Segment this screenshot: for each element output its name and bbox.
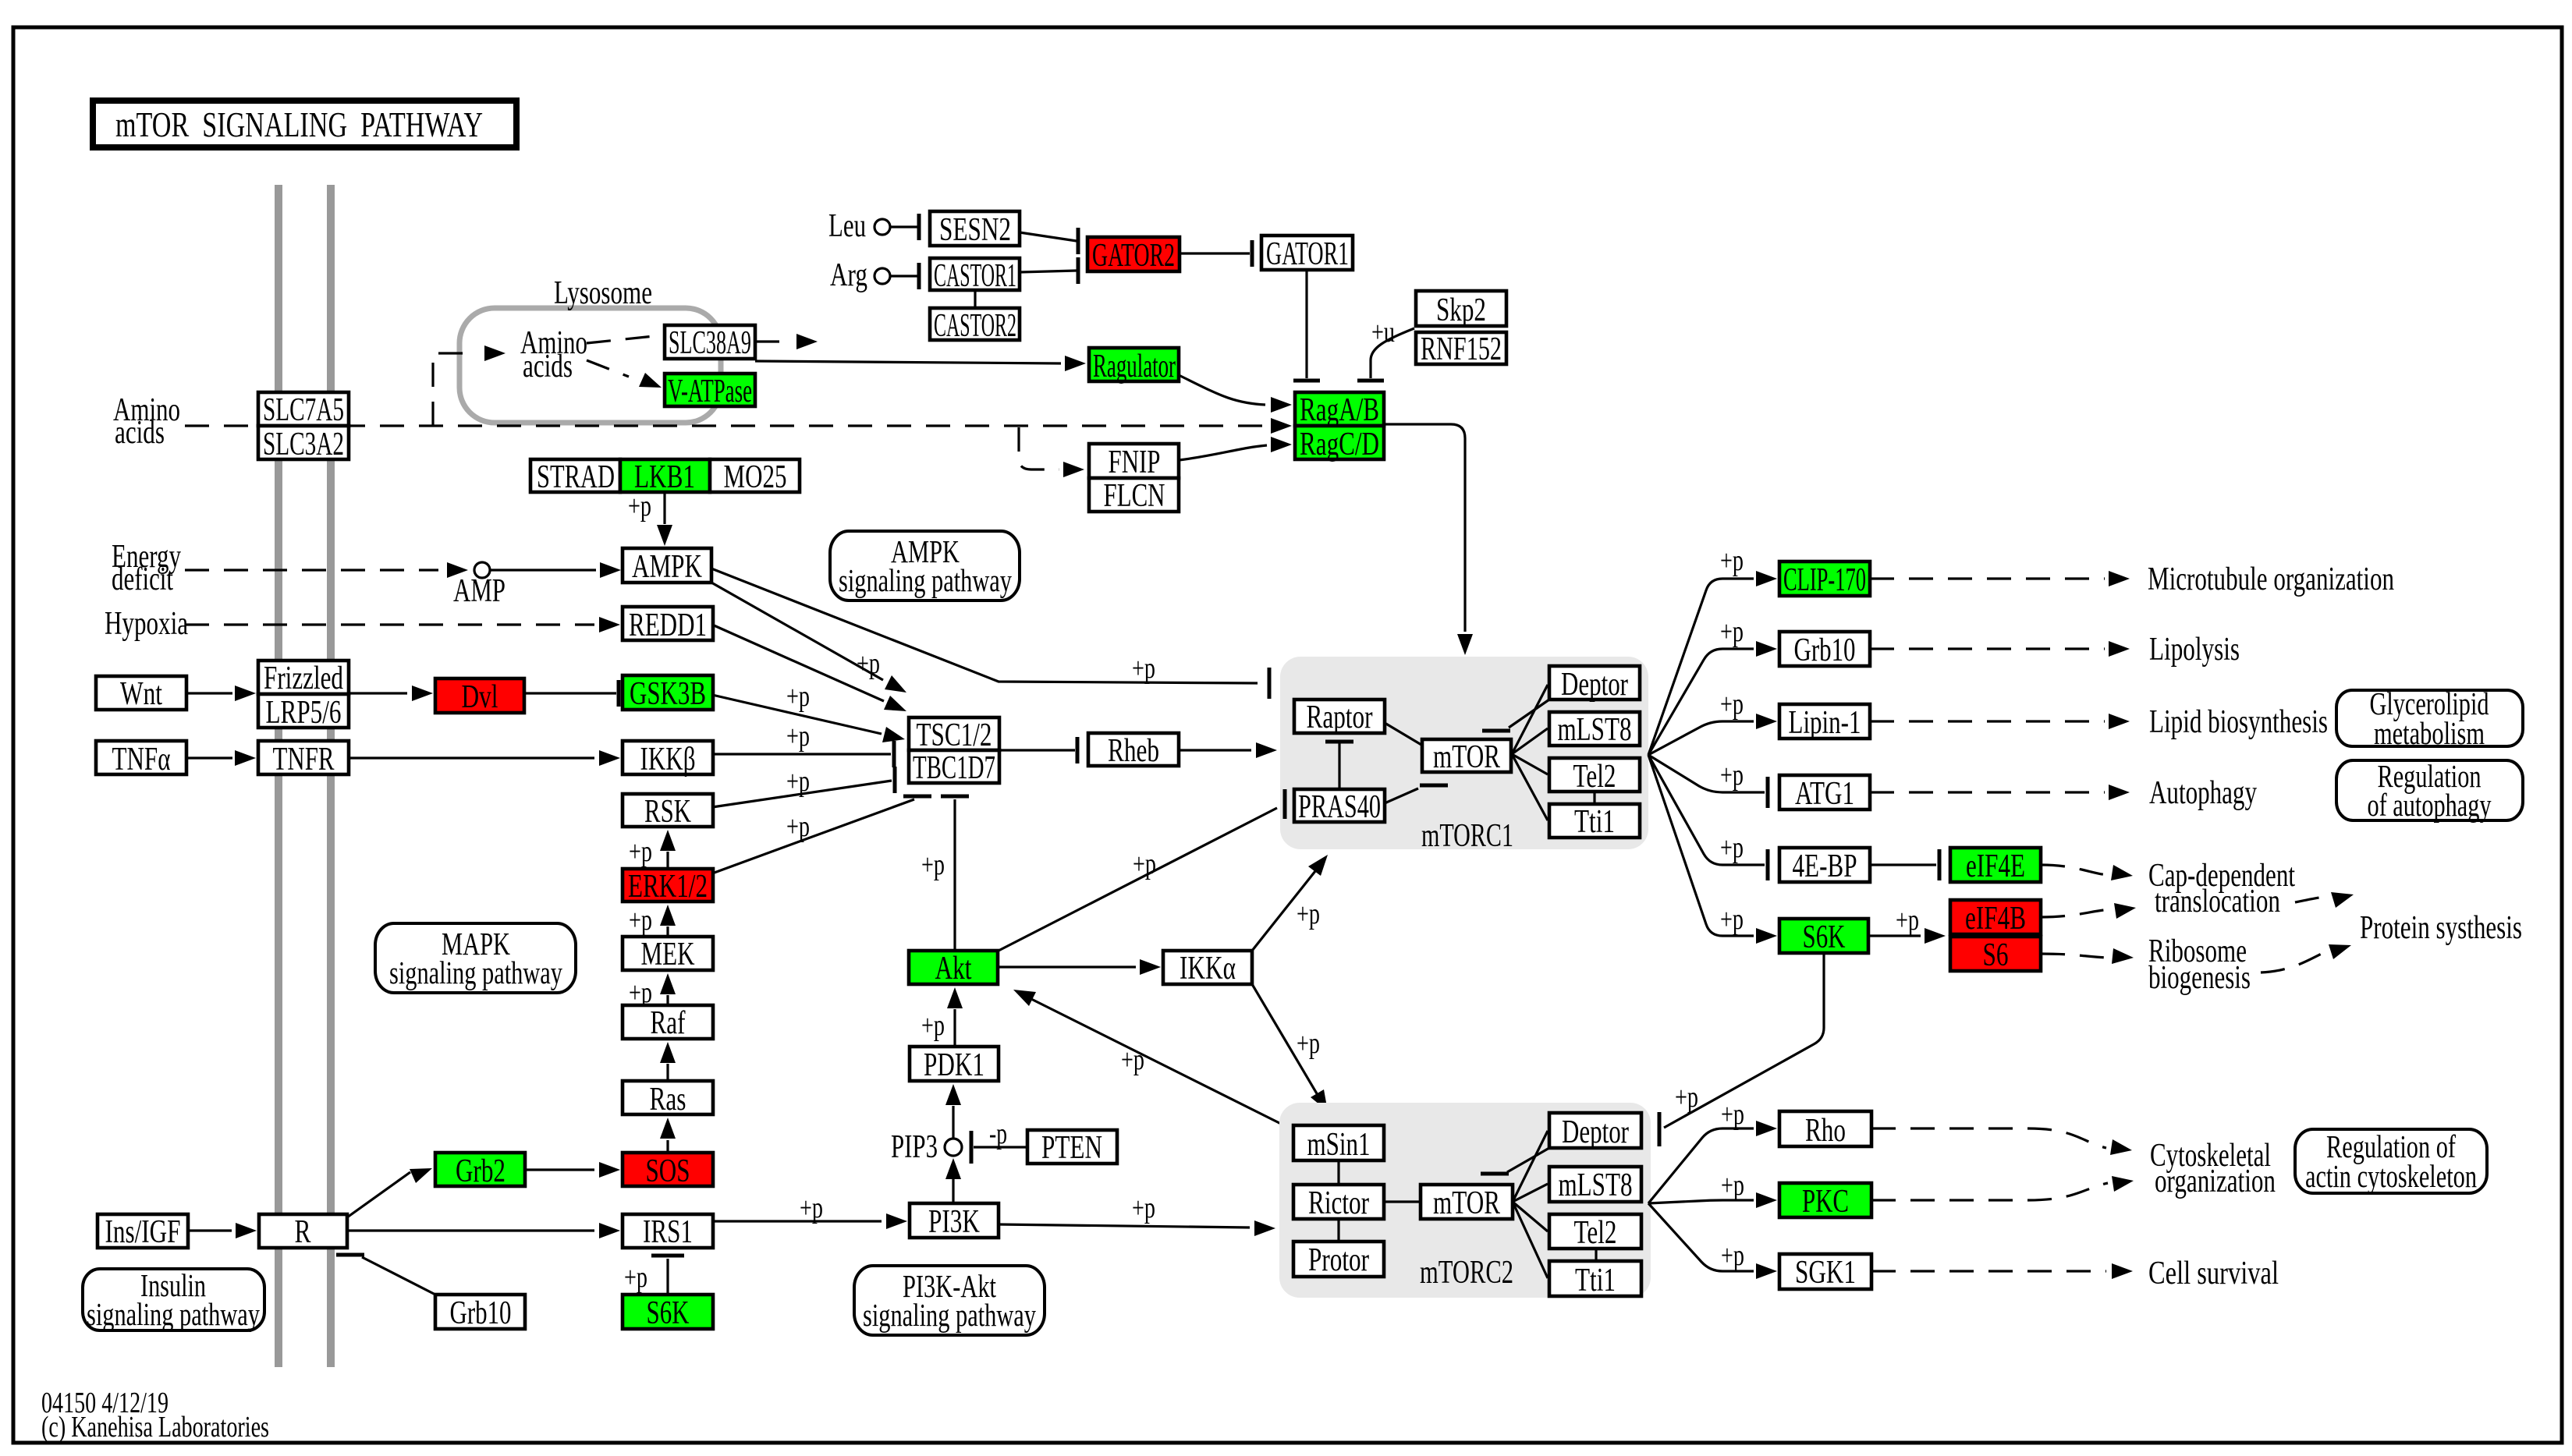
wire S6K to IRS1 inhibition bbox=[666, 1259, 669, 1295]
wire Raf to MEK bbox=[666, 995, 669, 1005]
arrowhead PI3K-PIP3 bbox=[945, 1158, 961, 1179]
svg-text:TSC1/2: TSC1/2 bbox=[917, 717, 992, 753]
svg-text:S6: S6 bbox=[1983, 937, 2009, 973]
gene Grb10 bottom bbox=[435, 1295, 525, 1331]
inhibit cap Grb10-R bbox=[336, 1253, 364, 1257]
dashed wire Amino acids to RagA/B-RagC/D bbox=[185, 424, 1270, 427]
svg-text:mLST8: mLST8 bbox=[1558, 712, 1632, 748]
arrowhead PIP3-PDK1 bbox=[945, 1084, 961, 1105]
wire SOS to Ras bbox=[666, 1140, 669, 1153]
svg-text:eIF4B: eIF4B bbox=[1965, 901, 2026, 937]
wire AMP to AMPK bbox=[490, 569, 596, 571]
arrowhead into V-ATPase bbox=[639, 373, 662, 388]
wire S6K feedback bbox=[1664, 953, 1824, 1128]
wire mTORC1 to Grb10 bbox=[1648, 649, 1754, 755]
svg-text:CASTOR1: CASTOR1 bbox=[934, 258, 1016, 294]
gene Ras bbox=[623, 1081, 713, 1118]
wire AMPK to mTORC1 inhibition bbox=[711, 569, 1258, 683]
svg-text:R: R bbox=[295, 1214, 311, 1250]
svg-text:Protor: Protor bbox=[1308, 1242, 1369, 1278]
svg-text:Skp2: Skp2 bbox=[1436, 292, 1486, 328]
gene Rictor bbox=[1293, 1185, 1384, 1221]
arrowhead AMPK-TSC bbox=[885, 675, 906, 693]
arrowhead PDK1-Akt bbox=[947, 987, 963, 1008]
svg-text:mTOR: mTOR bbox=[1433, 739, 1500, 775]
svg-text:mTORC2: mTORC2 bbox=[1420, 1255, 1513, 1291]
svg-text:LKB1: LKB1 bbox=[634, 459, 695, 495]
mTORC2 complex background bbox=[1279, 1103, 1651, 1298]
inhibit bar AMPK-mTORC1 bbox=[1268, 668, 1272, 699]
inhibit cap Raptor-PRAS40 bbox=[1325, 740, 1353, 744]
inhibit bar S6K-mTORC2 bbox=[1658, 1112, 1662, 1146]
svg-text:Grb10: Grb10 bbox=[1794, 632, 1856, 668]
gene eIF4E bbox=[1950, 848, 2041, 884]
dashed wire PKC to Cytoskeletal organization bbox=[1871, 1183, 2108, 1200]
svg-text:TNFR: TNFR bbox=[273, 742, 335, 778]
gene MEK bbox=[623, 937, 713, 972]
arrowhead mTORC2-PKC bbox=[1756, 1192, 1777, 1208]
inhibit bar RSK-TSC bbox=[893, 767, 897, 793]
lysosome compartment bbox=[459, 308, 721, 423]
dashed wire translocation to Protein synthesis bbox=[2295, 896, 2333, 902]
arrowhead into amino acids bbox=[484, 345, 506, 361]
gene GSK3B bbox=[623, 675, 713, 712]
svg-text:V-ATPase: V-ATPase bbox=[668, 374, 752, 409]
transporter SLC3A2 bbox=[258, 426, 349, 462]
gene PRAS40 bbox=[1294, 789, 1385, 825]
svg-text:PTEN: PTEN bbox=[1041, 1130, 1102, 1166]
svg-text:REDD1: REDD1 bbox=[629, 608, 707, 643]
wire Akt to IKKa bbox=[999, 965, 1136, 968]
gene Protor bbox=[1293, 1242, 1384, 1278]
svg-text:Deptor: Deptor bbox=[1562, 1114, 1629, 1150]
gene mLST8 (mTORC2) bbox=[1549, 1167, 1641, 1203]
gene ERK1/2 bbox=[623, 869, 713, 905]
inhibit cap ERK-TSC bbox=[903, 795, 931, 799]
svg-text:(c) Kanehisa Laboratories: (c) Kanehisa Laboratories bbox=[41, 1411, 269, 1444]
svg-text:+p: +p bbox=[786, 680, 810, 713]
gene S6K bottom bbox=[623, 1295, 713, 1331]
wire GSK3B to TSC bbox=[712, 695, 882, 734]
inhibit cap Deptor2-mTOR2 bbox=[1481, 1172, 1509, 1176]
arrowhead PI3K-mTORC2 bbox=[1254, 1220, 1275, 1236]
wire mTORC1 to Lipin-1 bbox=[1648, 721, 1754, 755]
arrowhead mTORC1-CLIP-170 bbox=[1756, 571, 1777, 586]
svg-text:Ins/IGF: Ins/IGF bbox=[105, 1214, 181, 1250]
wire Grb10 to R inhibition bbox=[362, 1257, 437, 1295]
svg-text:SGK1: SGK1 bbox=[1795, 1255, 1856, 1291]
dashed wire energy deficit bbox=[185, 569, 438, 571]
gene REDD1 bbox=[623, 607, 713, 643]
svg-text:Lipin-1: Lipin-1 bbox=[1789, 705, 1861, 741]
inhibit bar SESN2-GATOR2 bbox=[1077, 228, 1080, 254]
complex GATOR1 bbox=[1261, 236, 1353, 272]
svg-text:ERK1/2: ERK1/2 bbox=[628, 869, 708, 905]
title box mTOR SIGNALING PATHWAY bbox=[93, 101, 516, 147]
wire Deptor2 to mTOR2 bbox=[1507, 1148, 1549, 1172]
svg-text:organization: organization bbox=[2155, 1164, 2276, 1199]
svg-text:GATOR2: GATOR2 bbox=[1092, 238, 1175, 274]
wire SESN2 to GATOR2 bar bbox=[1020, 232, 1077, 241]
arrowhead mTORC1-Grb10 bbox=[1756, 641, 1777, 657]
inhibit bar IKKb-TSC bbox=[892, 741, 896, 767]
gene Deptor (mTORC2) bbox=[1549, 1113, 1641, 1150]
svg-text:CLIP-170: CLIP-170 bbox=[1783, 562, 1866, 598]
wire S6K to eIF4B/S6 bbox=[1868, 934, 1921, 937]
svg-text:+p: +p bbox=[1720, 759, 1744, 792]
svg-text:+p: +p bbox=[1720, 903, 1744, 936]
gene Rho bbox=[1779, 1111, 1871, 1149]
svg-text:of autophagy: of autophagy bbox=[2368, 787, 2492, 823]
gene AMPK bbox=[623, 548, 711, 585]
dashed wire ATG1 to Autophagy bbox=[1870, 791, 2105, 793]
svg-text:MO25: MO25 bbox=[724, 459, 787, 495]
svg-text:SLC38A9: SLC38A9 bbox=[669, 325, 751, 361]
svg-text:+p: +p bbox=[921, 1009, 945, 1042]
svg-text:Rheb: Rheb bbox=[1108, 733, 1159, 769]
gene eIF4B bbox=[1950, 900, 2041, 937]
dashed wire Lipin-1 to Lipid biosynthesis bbox=[1870, 720, 2105, 722]
gene ATG1 bbox=[1779, 775, 1870, 812]
arrowhead eIF4E-Cap bbox=[2111, 865, 2133, 880]
wire PDK1 to Akt bbox=[953, 1009, 956, 1047]
arrowhead before AMP bbox=[447, 562, 468, 578]
svg-text:+p: +p bbox=[921, 848, 945, 881]
gene S6 bbox=[1950, 937, 2041, 973]
svg-text:SESN2: SESN2 bbox=[939, 212, 1011, 248]
gene 4E-BP bbox=[1779, 848, 1870, 884]
svg-text:Tel2: Tel2 bbox=[1573, 759, 1616, 795]
arrowhead IRS1-PI3K bbox=[886, 1213, 907, 1229]
svg-text:acids: acids bbox=[523, 349, 573, 384]
svg-text:MEK: MEK bbox=[641, 937, 695, 972]
svg-text:Hypoxia: Hypoxia bbox=[105, 606, 188, 642]
svg-text:4E-BP: 4E-BP bbox=[1793, 848, 1857, 884]
dashed wire CLIP-170 to Microtubule organization bbox=[1870, 577, 2105, 579]
gene RagA/B bbox=[1295, 392, 1384, 428]
gene IKKb bbox=[623, 741, 713, 778]
dashed wire branch to FNIP bbox=[1019, 427, 1059, 469]
gene RNF152 bbox=[1416, 331, 1506, 367]
gene Raf bbox=[623, 1005, 713, 1041]
svg-text:acids: acids bbox=[115, 415, 165, 451]
arrowhead SGK1-Cell survival bbox=[2112, 1263, 2133, 1279]
svg-text:SOS: SOS bbox=[646, 1153, 690, 1189]
gene Wnt bbox=[96, 676, 186, 712]
wire CASTOR1 to GATOR2 bar bbox=[1020, 271, 1077, 272]
svg-text:S6K: S6K bbox=[647, 1295, 690, 1331]
svg-text:Deptor: Deptor bbox=[1561, 667, 1628, 703]
svg-text:+p: +p bbox=[786, 810, 810, 843]
wire ERK to TSC bbox=[712, 799, 914, 873]
arrowhead mTORC2-Akt bbox=[1013, 990, 1036, 1006]
arrowhead TNFR-IKKb bbox=[599, 750, 620, 766]
gene PTEN bbox=[1027, 1130, 1117, 1166]
mTORC1 complex background bbox=[1280, 657, 1648, 849]
svg-text:GSK3B: GSK3B bbox=[630, 676, 706, 712]
wire mTORC2 to Rho bbox=[1648, 1128, 1754, 1203]
svg-text:+p: +p bbox=[786, 765, 810, 798]
arrowhead Akt-IKKa bbox=[1140, 959, 1161, 975]
svg-text:biogenesis: biogenesis bbox=[2148, 960, 2251, 996]
gene mTOR (mTORC2) bbox=[1421, 1185, 1513, 1221]
complex TSC1/2 bbox=[909, 717, 999, 753]
gene Lipin-1 bbox=[1779, 704, 1870, 741]
svg-text:GATOR1: GATOR1 bbox=[1266, 236, 1349, 272]
inhibit cap GATOR1-RagA/B bbox=[1293, 379, 1320, 383]
svg-text:+p: +p bbox=[624, 1261, 647, 1294]
node PIP3 bbox=[945, 1139, 962, 1156]
wire mTORC2 to Akt bbox=[1023, 995, 1286, 1126]
wire PRAS40 to mTOR bbox=[1385, 788, 1418, 803]
gene IKKa bbox=[1163, 951, 1252, 987]
wire Wnt to Frizzled bbox=[186, 692, 232, 694]
gene Tti1 (mTORC2) bbox=[1549, 1261, 1641, 1298]
gene LKB1 bbox=[620, 459, 710, 495]
svg-text:Autophagy: Autophagy bbox=[2149, 775, 2257, 811]
svg-text:metabolism: metabolism bbox=[2374, 715, 2485, 751]
svg-text:mSin1: mSin1 bbox=[1307, 1127, 1371, 1163]
svg-text:Raptor: Raptor bbox=[1307, 700, 1373, 735]
wire IKKa to mTORC2 bbox=[1252, 984, 1318, 1095]
receptor LRP5/6 bbox=[258, 694, 349, 731]
arrowhead Ragulator-RagA/B bbox=[1271, 397, 1292, 413]
wire PTEN to PIP3 bbox=[974, 1146, 1027, 1148]
svg-text:signaling pathway: signaling pathway bbox=[839, 562, 1012, 598]
svg-text:+p: +p bbox=[1721, 1098, 1744, 1131]
arrowhead into REDD1 bbox=[599, 617, 620, 632]
wire Ragulator to RagA/B bbox=[1179, 375, 1265, 405]
inhibit bar CASTOR1-GATOR2 bbox=[1077, 257, 1080, 284]
receptor R bbox=[259, 1214, 347, 1250]
arrowhead REDD1-TSC bbox=[884, 696, 906, 711]
wire mTOR fan to subunits bbox=[1512, 685, 1548, 820]
pathway note MAPK signaling pathway bbox=[375, 923, 576, 993]
wire IKKb to TSC bbox=[712, 753, 891, 755]
arrowhead Rheb-mTORC1 bbox=[1256, 742, 1277, 758]
pathway note Glycerolipid metabolism bbox=[2336, 690, 2523, 746]
wire ERK to RSK bbox=[666, 852, 669, 869]
pathway note Insulin signaling pathway bbox=[83, 1269, 264, 1330]
complex Ragulator bbox=[1089, 348, 1179, 384]
svg-text:+p: +p bbox=[1675, 1081, 1698, 1114]
svg-text:Arg: Arg bbox=[830, 257, 867, 293]
inhibit bar Arg-CASTOR1 bbox=[917, 263, 921, 289]
wire GATOR1 down bbox=[1305, 270, 1307, 378]
wire 4E-BP to eIF4E bbox=[1870, 863, 1936, 866]
wire mSin1-Rictor complex bbox=[1337, 1160, 1339, 1185]
arrowhead into Rag boxes bbox=[1271, 418, 1292, 434]
gene Tel2 (mTORC1) bbox=[1549, 758, 1640, 795]
svg-text:RagA/B: RagA/B bbox=[1300, 392, 1379, 428]
svg-text:Dvl: Dvl bbox=[462, 679, 498, 715]
svg-text:Wnt: Wnt bbox=[120, 676, 162, 712]
arrowhead S6K-eIF4B bbox=[1925, 928, 1946, 944]
wire mTOR2 fan to subunits bbox=[1513, 1131, 1548, 1278]
svg-text:PKC: PKC bbox=[1802, 1184, 1849, 1220]
svg-text:IKKβ: IKKβ bbox=[640, 742, 696, 778]
svg-text:+p: +p bbox=[1720, 615, 1744, 648]
pathway note Regulation of actin cytoskeleton bbox=[2295, 1129, 2487, 1193]
gene mTOR (mTORC1) bbox=[1422, 739, 1511, 775]
inhibit bar mTORC1-4E-BP bbox=[1766, 849, 1770, 880]
svg-text:CASTOR2: CASTOR2 bbox=[934, 308, 1016, 344]
inhibit bar Dvl-GSK3B bbox=[617, 680, 621, 707]
dashed wire biogenesis to Protein synthesis bbox=[2261, 950, 2329, 972]
wire Rheb to mTORC1 bbox=[1179, 749, 1251, 751]
wire PIP3 to PDK1 bbox=[952, 1106, 954, 1138]
arrowhead Frizzled-Dvl bbox=[412, 685, 433, 701]
inhibit cap S6K-IRS1 bbox=[651, 1254, 684, 1258]
wire GATOR2 to GATOR1 bbox=[1180, 252, 1250, 254]
wire Ras to Raf bbox=[666, 1064, 669, 1081]
arrowhead LKB1-AMPK bbox=[657, 525, 672, 546]
arrowhead GSK3B-TSC bbox=[882, 727, 905, 742]
arrowhead Lipin-1 to Lipid biosynthesis bbox=[2109, 714, 2130, 729]
inhibit bar GATOR2-GATOR1 bbox=[1251, 240, 1254, 267]
svg-text:mLST8: mLST8 bbox=[1559, 1167, 1633, 1203]
arrowhead TNFa-TNFR bbox=[235, 750, 256, 766]
wire Deptor to mTOR bbox=[1509, 700, 1549, 728]
svg-text:PDK1: PDK1 bbox=[924, 1047, 984, 1083]
arrowhead R-Grb2 bbox=[410, 1168, 432, 1183]
arrowhead Grb2-SOS bbox=[599, 1162, 620, 1178]
wire PI3K to PIP3 bbox=[952, 1179, 954, 1203]
arrowhead SOS-Ras bbox=[660, 1118, 676, 1139]
pathway note PI3K-Akt signaling pathway bbox=[854, 1266, 1045, 1335]
gene CASTOR1 bbox=[930, 258, 1020, 294]
node Arg bbox=[874, 268, 890, 284]
svg-text:+p: +p bbox=[1721, 1169, 1744, 1202]
svg-text:+p: +p bbox=[1721, 1239, 1744, 1272]
wire Rictor-Protor complex bbox=[1337, 1219, 1339, 1242]
svg-text:Tel2: Tel2 bbox=[1574, 1215, 1617, 1251]
receptor Frizzled bbox=[258, 661, 349, 696]
svg-text:signaling pathway: signaling pathway bbox=[87, 1296, 260, 1332]
wire TNFR to IKKb bbox=[349, 756, 594, 759]
dashed wire eIF4B to translocation bbox=[2041, 909, 2111, 917]
dashed wire amino acids to SLC38A9 bbox=[587, 335, 662, 343]
gene PDK1 bbox=[910, 1047, 999, 1083]
inhibit cap Akt-TSC bbox=[941, 795, 969, 799]
wire mTORC1 to S6K bbox=[1648, 755, 1754, 936]
arrowhead IKKa-mTORC2 bbox=[1311, 1089, 1328, 1111]
wire RSK to TSC bbox=[712, 781, 892, 807]
wire R to IRS1 bbox=[347, 1229, 594, 1231]
svg-text:+p: +p bbox=[1720, 544, 1744, 577]
gene RagC/D bbox=[1295, 426, 1384, 462]
gene Deptor (mTORC1) bbox=[1549, 666, 1640, 703]
dashed wire hypoxia to REDD1 bbox=[185, 623, 594, 625]
gene Akt bbox=[909, 951, 998, 987]
transporter SLC38A9 bbox=[665, 325, 755, 361]
svg-text:Microtubule organization: Microtubule organization bbox=[2148, 561, 2394, 597]
svg-text:mTORC1: mTORC1 bbox=[1421, 818, 1513, 854]
arrowhead mTORC2-Rho bbox=[1756, 1121, 1777, 1136]
dashed wire eIF4E to Cap-dependent translocation bbox=[2041, 865, 2108, 875]
wire Dvl to GSK3B bbox=[524, 692, 616, 694]
gene TNFa bbox=[96, 741, 186, 778]
pathway note Regulation of autophagy bbox=[2336, 760, 2523, 820]
dashed wire Grb10 to Lipolysis bbox=[1870, 647, 2105, 650]
svg-text:+p: +p bbox=[1132, 1192, 1155, 1224]
gene S6K right bbox=[1779, 919, 1868, 955]
cell membrane double line bbox=[275, 185, 282, 1367]
svg-text:Tti1: Tti1 bbox=[1574, 804, 1615, 840]
gene MO25 bbox=[710, 459, 800, 495]
wire TNFa to TNFR bbox=[186, 756, 232, 759]
wire Frizzled to Dvl bbox=[349, 692, 407, 694]
inhibit cap RNF152-RagA/B bbox=[1357, 379, 1384, 383]
svg-text:+p: +p bbox=[1297, 1027, 1320, 1060]
svg-text:IRS1: IRS1 bbox=[643, 1214, 693, 1250]
arrowhead translocation-Protein bbox=[2331, 892, 2354, 908]
gene Tti1 (mTORC1) bbox=[1549, 804, 1640, 840]
dashed wire SLC38A9 out bbox=[755, 340, 788, 342]
svg-text:Ras: Ras bbox=[650, 1082, 686, 1118]
complex V-ATPase bbox=[665, 374, 755, 409]
svg-text:mTOR SIGNALING PATHWAY: mTOR SIGNALING PATHWAY bbox=[115, 105, 483, 144]
inhibit bar 4E-BP-eIF4E bbox=[1938, 849, 1942, 880]
arrowhead CLIP-170 to Microtubule organization bbox=[2109, 571, 2130, 586]
wire FLCN complex to RagC/D bbox=[1179, 445, 1267, 460]
dashed wire S6 to Ribosome biogenesis bbox=[2041, 954, 2108, 958]
arrowhead into AMPK bbox=[600, 562, 621, 578]
svg-text:AMP: AMP bbox=[453, 573, 506, 609]
svg-text:PRAS40: PRAS40 bbox=[1298, 789, 1381, 825]
arrowhead S6-Ribosome bbox=[2112, 948, 2134, 964]
svg-text:Tti1: Tti1 bbox=[1575, 1263, 1616, 1298]
svg-text:STRAD: STRAD bbox=[537, 459, 615, 495]
svg-text:Frizzled: Frizzled bbox=[264, 661, 343, 696]
gene PKC bbox=[1779, 1183, 1871, 1220]
svg-text:+p: +p bbox=[1720, 688, 1744, 721]
svg-text:Grb10: Grb10 bbox=[450, 1295, 512, 1331]
arrowhead mTORC1-S6K bbox=[1756, 928, 1777, 944]
arrowhead Ins-R bbox=[236, 1223, 257, 1238]
arrowhead mTORC2-SGK1 bbox=[1756, 1263, 1777, 1279]
gene RSK bbox=[623, 794, 713, 830]
gene TBC1D7 bbox=[909, 750, 999, 786]
wire Tel2-Tti1 complex bbox=[1593, 792, 1595, 804]
gene CASTOR2 bbox=[930, 308, 1020, 344]
inhibit bar PTEN-PIP3 bbox=[970, 1131, 974, 1164]
svg-text:FNIP: FNIP bbox=[1109, 445, 1161, 480]
svg-text:PIP3: PIP3 bbox=[891, 1129, 938, 1165]
svg-text:IKKα: IKKα bbox=[1180, 951, 1236, 987]
gene Ins/IGF bbox=[98, 1214, 188, 1250]
wire LKB1 to AMPK bbox=[663, 494, 665, 524]
wire mTORC1 to CLIP-170 bbox=[1648, 579, 1754, 755]
svg-text:Rho: Rho bbox=[1805, 1113, 1846, 1149]
svg-text:Raf: Raf bbox=[651, 1005, 686, 1041]
wire Akt to PRAS40 bbox=[999, 808, 1277, 951]
svg-text:Lysosome: Lysosome bbox=[554, 275, 652, 311]
arrowhead Rag-mTORC1 bbox=[1457, 634, 1473, 655]
svg-text:+p: +p bbox=[1132, 652, 1155, 685]
arrowhead PKC-Cytoskeletal bbox=[2112, 1176, 2134, 1192]
svg-text:FLCN: FLCN bbox=[1104, 478, 1165, 514]
wire Arg to bar bbox=[890, 275, 917, 277]
transporter SLC7A5 bbox=[258, 392, 349, 428]
svg-text:RNF152: RNF152 bbox=[1421, 331, 1502, 367]
wire REDD1 to TSC1/2 bbox=[712, 625, 884, 701]
svg-text:signaling pathway: signaling pathway bbox=[863, 1297, 1036, 1333]
svg-text:+p: +p bbox=[1720, 831, 1744, 864]
svg-text:SLC7A5: SLC7A5 bbox=[263, 392, 344, 428]
wire mTORC1 to ATG1 bbox=[1648, 755, 1765, 792]
arrowhead Wnt-Frizzled bbox=[235, 685, 256, 701]
